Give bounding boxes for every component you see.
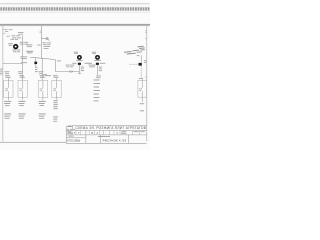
pin labels below K1 <box>35 67 38 72</box>
indicator lamp HL2 <box>77 55 82 60</box>
title block small specks <box>67 126 145 137</box>
stub above SA5 <box>141 78 143 80</box>
stub below SA4 <box>56 97 58 100</box>
svg-text:РИСУНОК 4 /23: РИСУНОК 4 /23 <box>103 138 127 142</box>
svg-text:СХЕМА ЭЛ. РОЗЖИГА ПЛИТ АГРЕГАТ: СХЕМА ЭЛ. РОЗЖИГА ПЛИТ АГРЕГАТОВ <box>75 126 146 130</box>
switch box SA1 <box>4 80 13 97</box>
perforated strip background <box>0 7 150 12</box>
wire W7 horizontal <box>56 71 80 73</box>
switch box SA5 <box>138 80 147 97</box>
stub above SA4 <box>56 78 58 80</box>
title block texts <box>67 126 146 143</box>
switch box SA4 <box>52 80 61 97</box>
wire W4 horizontal <box>3 63 22 65</box>
wire W3 vertical <box>21 36 23 81</box>
title block <box>66 125 146 143</box>
stub below SA2 <box>22 97 24 100</box>
wire dropper to K1 <box>35 58 37 67</box>
right border <box>145 26 148 142</box>
terminal ticks on W1 <box>40 31 42 33</box>
switch contact SA4 <box>53 80 57 97</box>
wire W1 vertical <box>40 26 42 59</box>
contactor coil K1 <box>34 62 37 65</box>
wire W10 above K4 <box>140 55 142 63</box>
perforation band lower edge <box>0 11 150 14</box>
lamp symbol E1 <box>46 37 50 41</box>
connector end of W8 <box>78 73 81 74</box>
contactor coil K2 <box>78 63 81 65</box>
dashed wire below K4 <box>140 66 142 78</box>
wire to SA3 <box>41 58 43 80</box>
dash-dot linkage to K4 <box>130 63 139 65</box>
top hairline <box>0 2 150 5</box>
wire W6 vertical <box>55 60 57 72</box>
left margin stamp text <box>1 69 2 74</box>
left border <box>2 26 5 142</box>
indicator lamp HL1 (punched donut) <box>13 44 18 49</box>
stub below SA5 <box>141 97 143 102</box>
stub below SA1 <box>7 97 9 100</box>
wire W8 below K2 <box>78 65 80 73</box>
handwritten note top right <box>124 46 146 55</box>
title block row2 cell dividers <box>71 130 140 135</box>
svg-text:ЕГО120ВЫ: ЕГО120ВЫ <box>67 140 81 143</box>
left border tick <box>3 30 6 33</box>
wire W2 branch to lamp <box>41 38 46 40</box>
svg-text:В: В <box>92 131 94 135</box>
stub above SA1 <box>7 78 9 80</box>
switch contact SA5 <box>139 80 143 97</box>
switch contact SA1 <box>5 80 9 97</box>
left margin stamp box <box>0 68 2 75</box>
contactor coil K4 <box>139 63 142 66</box>
wire W5 branch horizontal <box>30 57 55 59</box>
switch contact SA2 <box>19 80 23 97</box>
connector chevrons on W7 <box>69 70 72 72</box>
right border ticks <box>145 31 147 77</box>
contactor coil K3 <box>96 63 99 65</box>
wire W9 below K3 <box>96 65 98 75</box>
switch box SA3 <box>38 80 47 97</box>
switch box SA2 <box>18 80 27 97</box>
indicator lamp HL3 <box>95 55 100 60</box>
label specks: schematic annotations <box>4 29 146 121</box>
switch contact SA3 <box>40 80 44 97</box>
scan background <box>0 0 150 150</box>
top frame band <box>0 24 150 26</box>
bottom frame band <box>0 141 67 144</box>
stub below SA3 <box>42 97 44 100</box>
perforated strip squares <box>0 7 149 10</box>
label at SA3 wire bottom <box>43 73 47 76</box>
